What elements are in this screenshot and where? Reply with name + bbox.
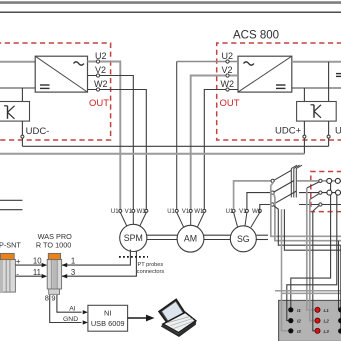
wire load tap a (271, 182, 341, 236)
enclosure ACS800 right (dashed) (217, 43, 341, 140)
wire UDC- terminal drop (21, 138, 23, 146)
terminal L3 (315, 328, 320, 333)
machine SG terminals (226, 209, 262, 227)
wire pin9 to AI (57, 295, 82, 312)
svg-text:9: 9 (51, 293, 55, 302)
wire PT probe 2 (62, 251, 137, 277)
svg-text:NI: NI (104, 309, 111, 318)
svg-text:W1: W1 (137, 209, 147, 215)
wire I2 feeder (287, 193, 337, 321)
wire SG V1 riser (247, 193, 271, 210)
svg-text:3: 3 (71, 268, 75, 277)
svg-text:USB 6009: USB 6009 (91, 319, 125, 328)
DAQ NI USB 6009 (88, 305, 128, 331)
terminal L2 (315, 318, 320, 323)
terminal L1 (315, 307, 320, 312)
machine SPM terminals (111, 209, 148, 227)
switch S2 contact a (307, 179, 322, 188)
wire L3 feeder (313, 211, 315, 330)
wire V2 output left converter (88, 76, 134, 211)
enclosure ACS800 left (dashed) (0, 43, 111, 140)
terminal W2 left (96, 88, 99, 91)
wire load tap b (274, 194, 341, 241)
switch S2 contact c (313, 203, 322, 211)
switch S1 pole b (271, 181, 294, 195)
wire aux row near panel a (275, 290, 341, 292)
svg-text:U1: U1 (167, 209, 175, 215)
laptop PC (159, 299, 196, 337)
wire U2 output left converter (88, 62, 121, 211)
wire chopper2 left leg (303, 88, 305, 102)
switch S1 pole a (271, 170, 291, 182)
arrow AI (83, 310, 88, 314)
wire right edge riser b (340, 245, 341, 331)
svg-text:W2: W2 (94, 79, 108, 89)
machine AM (177, 225, 204, 252)
wire chopper2 to UDC+ terminal (303, 121, 305, 135)
wire top bus thick (0, 1, 341, 4)
svg-text:V2: V2 (95, 65, 106, 75)
wire L1 feeder (307, 188, 315, 310)
terminal I2 (288, 318, 293, 323)
wire DC- rail right (292, 87, 341, 89)
svg-text:SPM: SPM (124, 233, 143, 243)
svg-text:W2: W2 (221, 79, 235, 89)
wire UDC+ drop (303, 138, 305, 154)
svg-text:V1: V1 (125, 209, 133, 215)
terminal I3 (288, 328, 293, 333)
wire load tap d (284, 209, 341, 250)
svg-text:W1: W1 (194, 209, 204, 215)
svg-text:U2: U2 (222, 51, 234, 61)
terminal V2 left (96, 74, 99, 77)
transducer WAS PRO RTO1000 (47, 253, 61, 294)
svg-text:AM: AM (184, 234, 197, 244)
wire I1 feeder (291, 181, 331, 308)
terminal col3 b (338, 318, 341, 323)
svg-text:L3: L3 (324, 329, 330, 334)
wire PT probe 1 (62, 250, 131, 266)
wire stub left edge b (0, 209, 23, 211)
terminal W2 right (226, 88, 229, 91)
svg-text:connectors: connectors (137, 269, 165, 275)
svg-text:P-SNT: P-SNT (0, 240, 21, 249)
svg-text:PT probes: PT probes (138, 262, 164, 268)
wire load tap c (274, 206, 341, 246)
wire chopper1 right leg (21, 88, 23, 102)
svg-text:+: + (16, 257, 21, 266)
enclosure filter (dashed) (311, 172, 341, 212)
wire P-SNT to WAS PRO 1 (15, 264, 42, 266)
svg-text:V1: V1 (239, 209, 247, 215)
svg-text:AI: AI (69, 305, 76, 312)
switch S1 pole c (271, 191, 296, 206)
svg-text:I2: I2 (297, 319, 301, 324)
arrow into WAS PRO right 1 (62, 263, 68, 267)
wire grid row 1 (297, 180, 341, 182)
wire pin8 to GND (50, 295, 82, 323)
wire W2 output left converter (88, 90, 147, 211)
svg-text:11: 11 (33, 268, 41, 277)
arrow GND (83, 320, 88, 324)
wire linkage tips (291, 165, 302, 168)
wire top bus thin (0, 11, 341, 13)
terminal col3 a (338, 307, 341, 312)
shaft SPM-AM (147, 235, 178, 239)
svg-text:GND: GND (63, 316, 78, 323)
wire P-SNT to WAS PRO 2 (15, 275, 42, 277)
machine SPM (120, 224, 147, 251)
machine SG (230, 226, 256, 252)
wire chopper2 to UDC- terminal (328, 121, 330, 135)
label = of cut-off converter at right edge (336, 74, 341, 77)
panel resistor load (279, 300, 341, 341)
wire L2 feeder (310, 200, 315, 321)
svg-text:8: 8 (45, 293, 49, 302)
dotted pointer PT probes (119, 256, 148, 258)
terminal V2 right (226, 74, 229, 77)
svg-text:OUT: OUT (89, 98, 109, 109)
svg-text:U2: U2 (95, 51, 107, 61)
terminal U2 right (226, 60, 229, 63)
wire stub left edge a (0, 199, 23, 201)
brake chopper Q1 (0, 102, 30, 122)
svg-text:V2: V2 (222, 65, 233, 75)
svg-text:SG: SG (237, 234, 250, 244)
svg-text:UD: UD (335, 126, 341, 137)
switch S2 contact b (310, 191, 322, 200)
terminal col3 c (338, 328, 341, 333)
brake chopper Q2 (297, 102, 337, 122)
converter U1 (inverter) (35, 56, 87, 92)
svg-text:L1: L1 (324, 308, 330, 313)
svg-text:UDC+: UDC+ (275, 126, 302, 137)
wire chopper1 to UDC- terminal (21, 121, 23, 135)
wire U2 input right converter (177, 61, 238, 63)
arrow into WAS PRO right 2 (62, 274, 68, 278)
wire SG W1 riser (260, 205, 271, 210)
converter U2 (rectifier) (238, 56, 292, 92)
svg-text:R TO 1000: R TO 1000 (36, 240, 71, 249)
svg-text:I1: I1 (297, 308, 301, 313)
wire UDC- drop (328, 138, 330, 146)
wire DC+ rail right (292, 61, 341, 63)
terminal U2 left (96, 60, 99, 63)
svg-text:OUT: OUT (220, 98, 240, 109)
machine AM terminals (167, 209, 206, 228)
wire W2 input right converter (204, 90, 238, 211)
wire I3 feeder (282, 209, 291, 331)
terminal I1 (288, 307, 293, 312)
arrow into WAS PRO left 2 (42, 274, 48, 278)
node UDC- left (21, 135, 24, 138)
shaft SG right stub (256, 235, 268, 239)
svg-text:10: 10 (33, 256, 42, 265)
svg-text:U1: U1 (226, 209, 234, 215)
shaft AM-SG (204, 235, 231, 239)
switch linkage bars (291, 169, 296, 198)
svg-text:U1: U1 (111, 209, 119, 215)
svg-text:I3: I3 (297, 329, 301, 334)
inductor L row2 (327, 190, 341, 195)
transducer P-SNT (0, 253, 15, 292)
wire grid row 3 (299, 204, 341, 206)
wire grid row 2 (299, 192, 341, 194)
svg-text:UDC-: UDC- (26, 126, 50, 137)
arrow NI to laptop (128, 315, 155, 322)
wire DC- into U1 (0, 87, 35, 89)
wire DC+ into U1 (0, 61, 35, 63)
wire SG U1 riser (234, 181, 271, 210)
svg-text:V1: V1 (182, 209, 190, 215)
node UDC+ right (303, 135, 306, 138)
wire UDC+ bus (0, 153, 304, 155)
svg-text:L2: L2 (324, 319, 330, 324)
wire UDC- bus (22, 145, 328, 147)
svg-text:W1: W1 (252, 209, 262, 215)
inductor L row1 (327, 178, 341, 183)
wire chopper2 right leg (328, 62, 330, 102)
wire aux row near panel b (281, 292, 341, 294)
wire right edge riser a (338, 241, 340, 310)
svg-text:ACS 800: ACS 800 (233, 30, 279, 42)
node UDC- right (327, 135, 330, 138)
wire V2 input right converter (191, 76, 238, 211)
svg-text:1: 1 (71, 256, 75, 265)
arrow into WAS PRO left 1 (42, 263, 48, 267)
svg-text:-: - (16, 269, 19, 278)
